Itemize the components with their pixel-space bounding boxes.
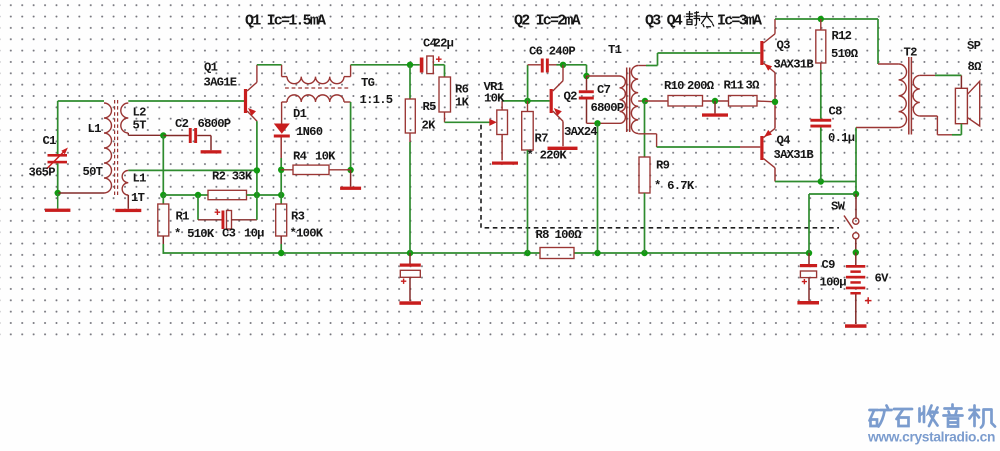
svg-text:10µ: 10µ bbox=[244, 227, 264, 241]
svg-text:6800P: 6800P bbox=[591, 101, 624, 115]
svg-text:Q3: Q3 bbox=[777, 39, 791, 53]
svg-text:10K: 10K bbox=[315, 150, 336, 164]
svg-text:10K: 10K bbox=[484, 92, 505, 106]
svg-text:C9: C9 bbox=[822, 258, 836, 272]
svg-text:Ic=3mA: Ic=3mA bbox=[717, 13, 762, 30]
svg-text:R1: R1 bbox=[176, 210, 190, 224]
svg-text:6800P: 6800P bbox=[198, 117, 231, 131]
svg-text:2K: 2K bbox=[422, 119, 437, 133]
svg-text:C1: C1 bbox=[43, 134, 57, 148]
svg-text:TG: TG bbox=[361, 76, 375, 90]
svg-text:R4: R4 bbox=[293, 150, 307, 164]
svg-text:R8: R8 bbox=[536, 228, 550, 242]
svg-text:1N60: 1N60 bbox=[296, 125, 323, 139]
svg-text:200Ω: 200Ω bbox=[687, 79, 715, 93]
svg-text:SW: SW bbox=[831, 200, 846, 214]
svg-text:R11: R11 bbox=[724, 79, 744, 93]
svg-text:100µ: 100µ bbox=[820, 276, 847, 290]
svg-text:* 220K: * 220K bbox=[527, 149, 568, 163]
svg-text:1T: 1T bbox=[131, 191, 145, 205]
svg-text:1:1.5: 1:1.5 bbox=[360, 93, 393, 107]
svg-text:22µ: 22µ bbox=[434, 37, 454, 51]
svg-text:8Ω: 8Ω bbox=[968, 60, 983, 74]
svg-text:3AX24: 3AX24 bbox=[564, 125, 597, 139]
svg-text:1K: 1K bbox=[455, 96, 470, 110]
svg-text:D1: D1 bbox=[293, 107, 307, 121]
svg-text:SP: SP bbox=[967, 39, 981, 53]
svg-text:*100K: *100K bbox=[290, 227, 324, 241]
svg-text:R2 33K: R2 33K bbox=[212, 170, 253, 184]
svg-text:* 6.7K: * 6.7K bbox=[654, 179, 695, 193]
svg-text:365P: 365P bbox=[29, 166, 56, 180]
svg-text:C2: C2 bbox=[175, 117, 189, 131]
svg-text:R7: R7 bbox=[535, 132, 549, 146]
svg-text:50T: 50T bbox=[83, 165, 103, 179]
svg-text:100Ω: 100Ω bbox=[555, 228, 583, 242]
svg-text:3AX31B: 3AX31B bbox=[774, 58, 815, 72]
svg-text:3AX31B: 3AX31B bbox=[774, 148, 815, 162]
svg-text:C8: C8 bbox=[829, 105, 843, 119]
svg-text:L1: L1 bbox=[133, 172, 147, 186]
svg-text:L2: L2 bbox=[133, 106, 147, 120]
svg-text:6V: 6V bbox=[875, 272, 890, 286]
svg-text:5T: 5T bbox=[133, 119, 147, 133]
svg-text:Q2: Q2 bbox=[564, 90, 578, 104]
svg-text:R3: R3 bbox=[291, 210, 305, 224]
svg-text:www.crystalradio.cn: www.crystalradio.cn bbox=[867, 430, 995, 445]
svg-text:R6: R6 bbox=[455, 83, 469, 97]
svg-text:* 510K: * 510K bbox=[174, 227, 215, 241]
svg-text:T1: T1 bbox=[608, 43, 622, 57]
svg-text:C6 240P: C6 240P bbox=[529, 45, 575, 59]
svg-text:R12: R12 bbox=[832, 29, 852, 43]
svg-text:T2: T2 bbox=[904, 46, 918, 60]
svg-text:Q1 Ic=1.5mA: Q1 Ic=1.5mA bbox=[245, 13, 326, 30]
svg-text:R10: R10 bbox=[664, 79, 684, 93]
svg-text:510Ω: 510Ω bbox=[831, 47, 859, 61]
svg-text:C3: C3 bbox=[222, 227, 236, 241]
svg-text:L1: L1 bbox=[88, 122, 102, 136]
svg-text:Q3 Q4: Q3 Q4 bbox=[645, 13, 683, 30]
svg-text:0.1µ: 0.1µ bbox=[828, 131, 855, 145]
svg-text:Q1: Q1 bbox=[204, 61, 218, 75]
svg-text:3Ω: 3Ω bbox=[746, 79, 761, 93]
svg-text:C7: C7 bbox=[597, 83, 611, 97]
svg-text:R5: R5 bbox=[423, 100, 437, 114]
svg-text:Q4: Q4 bbox=[777, 134, 791, 148]
svg-text:Q2 Ic=2mA: Q2 Ic=2mA bbox=[514, 13, 581, 30]
svg-text:R9: R9 bbox=[656, 159, 670, 173]
svg-text:3AG1E: 3AG1E bbox=[204, 76, 237, 90]
